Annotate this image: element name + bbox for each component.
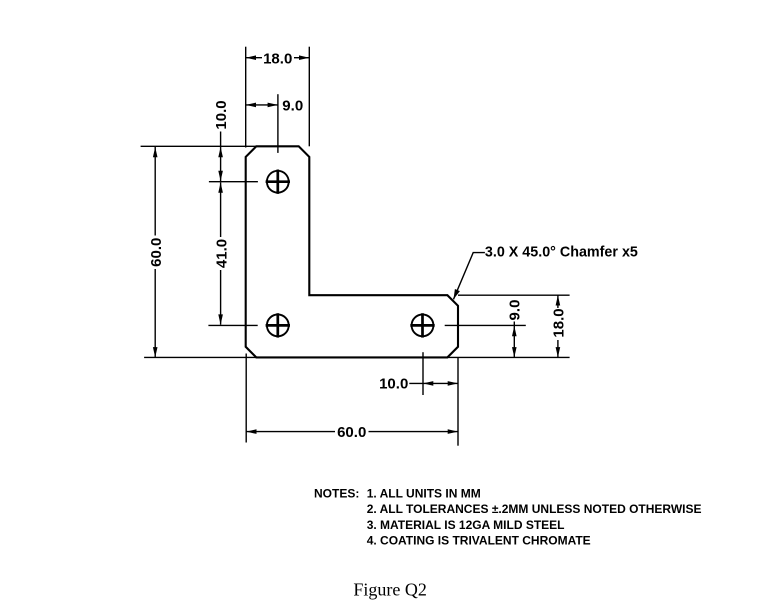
svg-text:60.0: 60.0	[148, 238, 165, 267]
svg-text:NOTES:: NOTES:	[314, 486, 359, 500]
svg-text:3.0 X 45.0° Chamfer x5: 3.0 X 45.0° Chamfer x5	[485, 243, 638, 260]
svg-text:1. ALL UNITS IN MM: 1. ALL UNITS IN MM	[367, 486, 481, 500]
svg-text:10.0: 10.0	[213, 100, 230, 129]
svg-text:9.0: 9.0	[507, 300, 524, 321]
svg-text:60.0: 60.0	[337, 424, 366, 441]
svg-text:10.0: 10.0	[379, 376, 408, 393]
svg-text:3. MATERIAL IS 12GA MILD STEEL: 3. MATERIAL IS 12GA MILD STEEL	[367, 518, 565, 532]
svg-text:9.0: 9.0	[282, 98, 303, 115]
svg-text:18.0: 18.0	[263, 51, 292, 68]
svg-text:41.0: 41.0	[213, 239, 230, 268]
svg-text:18.0: 18.0	[551, 308, 568, 337]
svg-text:Figure Q2: Figure Q2	[353, 580, 427, 600]
svg-text:2. ALL TOLERANCES ±.2MM UNLESS: 2. ALL TOLERANCES ±.2MM UNLESS NOTED OTH…	[367, 502, 702, 516]
svg-text:4. COATING IS TRIVALENT CHROMA: 4. COATING IS TRIVALENT CHROMATE	[367, 534, 591, 548]
